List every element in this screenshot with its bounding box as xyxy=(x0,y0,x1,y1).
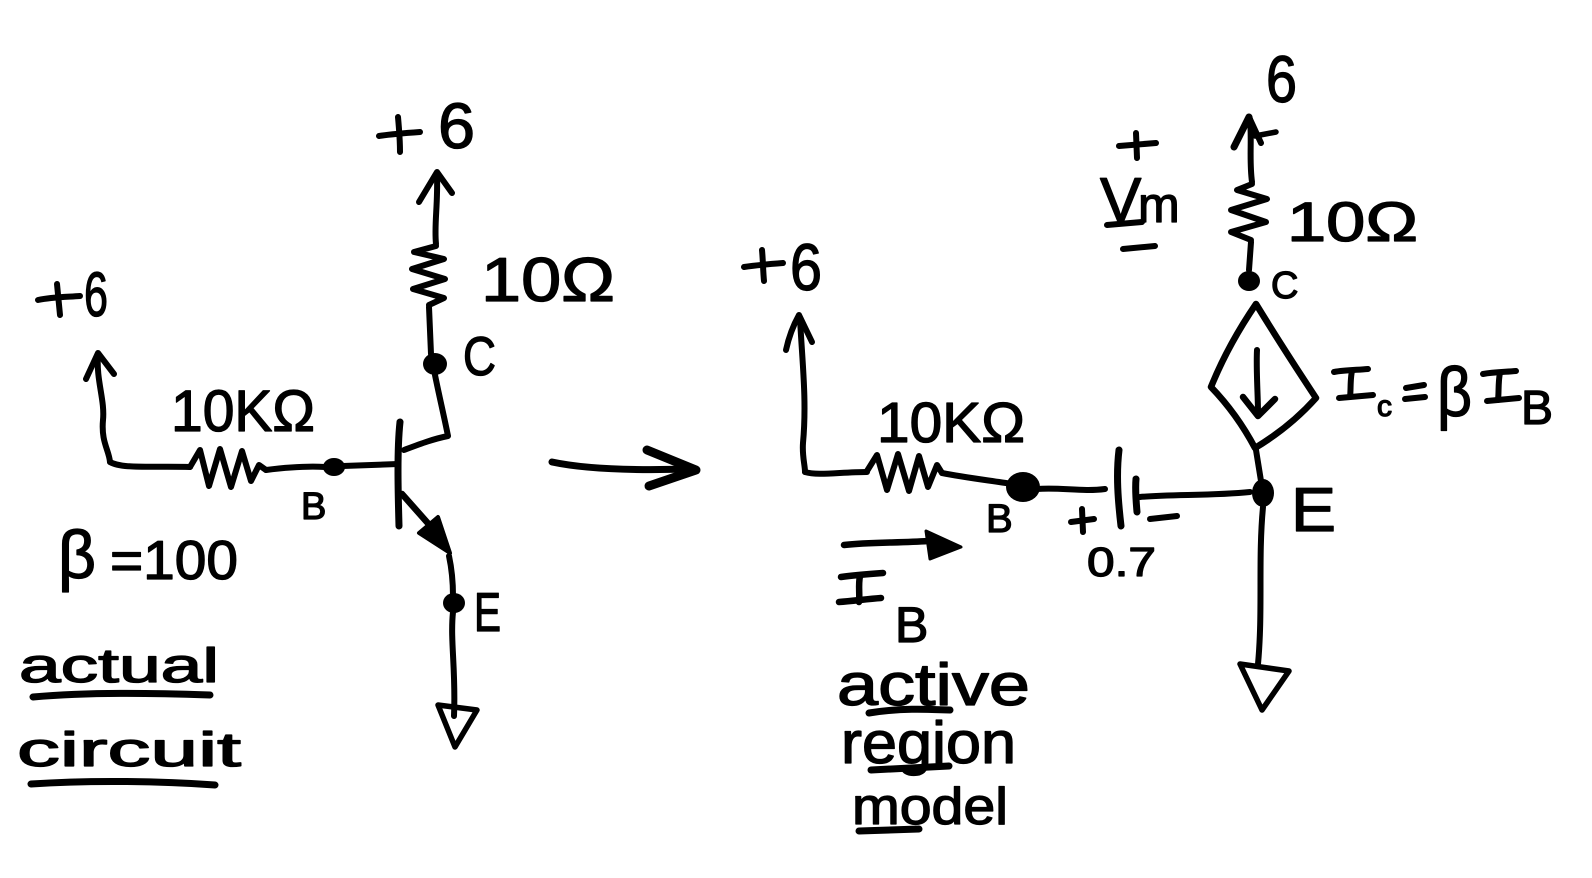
minus label (0.7V source) xyxy=(1150,516,1177,519)
svg-text:B: B xyxy=(895,597,928,653)
power arrow (left supply) xyxy=(86,353,114,462)
svg-text:E: E xyxy=(474,581,501,643)
wire xyxy=(1258,507,1263,664)
svg-text:B: B xyxy=(986,497,1013,541)
power arrow (left collector supply) xyxy=(419,172,452,244)
wire xyxy=(1037,489,1105,490)
caption "region" xyxy=(841,710,1016,776)
caption "circuit" xyxy=(17,724,241,785)
resistor RB 10K (right) xyxy=(867,454,942,491)
label Ic = βIB xyxy=(1334,353,1553,435)
svg-text:6: 6 xyxy=(790,230,822,304)
node E junction dot (right) xyxy=(1252,479,1274,507)
svg-text:=100: =100 xyxy=(110,529,238,591)
wire xyxy=(805,472,867,474)
svg-text:β: β xyxy=(1437,353,1472,431)
power +6 label (left collector supply) xyxy=(379,90,475,162)
wire xyxy=(343,464,398,466)
wire xyxy=(1249,242,1251,270)
wire xyxy=(449,556,453,596)
resistor RC 10Ω (right, vertical) xyxy=(1231,184,1267,240)
wire xyxy=(1256,450,1261,481)
transistor Q1 (NPN) xyxy=(398,375,450,553)
power arrow (right supply) xyxy=(786,315,812,472)
svg-text:c: c xyxy=(1377,390,1392,423)
svg-text:C: C xyxy=(1271,265,1298,307)
voltage source 0.7V (base-emitter drop) xyxy=(1118,450,1137,526)
node B junction dot (left) xyxy=(323,458,345,476)
power arrow (right collector supply) xyxy=(1234,117,1276,182)
svg-text:6: 6 xyxy=(438,90,475,162)
wire xyxy=(266,467,325,470)
svg-text:10KΩ: 10KΩ xyxy=(877,391,1025,455)
caption "model" xyxy=(852,778,1008,836)
svg-text:E: E xyxy=(1291,476,1336,545)
plus label (0.7V source) xyxy=(1071,509,1094,532)
wire xyxy=(1140,492,1250,497)
wire xyxy=(429,307,431,354)
base current arrow IB xyxy=(844,531,961,559)
node C junction dot (left) xyxy=(423,353,447,375)
svg-text:actual: actual xyxy=(19,640,219,693)
node B junction dot (right) xyxy=(1006,472,1040,502)
svg-text:β: β xyxy=(58,517,96,593)
wire xyxy=(942,473,1012,484)
annotation Vm with polarity xyxy=(1100,133,1180,249)
label IB xyxy=(839,573,928,653)
wire xyxy=(110,462,190,467)
svg-text:10KΩ: 10KΩ xyxy=(171,379,315,444)
transform arrow (actual to model) xyxy=(552,450,696,486)
svg-text:B: B xyxy=(301,486,326,528)
node C junction dot (right) xyxy=(1238,271,1260,291)
svg-text:circuit: circuit xyxy=(17,724,241,777)
svg-text:C: C xyxy=(463,325,496,387)
svg-text:10Ω: 10Ω xyxy=(1287,190,1418,253)
current arrow inside source xyxy=(1243,350,1275,416)
resistor RC 10Ω (left, vertical) xyxy=(412,246,445,305)
svg-text:6: 6 xyxy=(1266,42,1297,116)
wire xyxy=(452,612,454,716)
svg-text:6: 6 xyxy=(84,260,108,330)
svg-text:B: B xyxy=(1521,382,1553,435)
svg-text:m: m xyxy=(1138,177,1180,233)
node E junction dot (left) xyxy=(443,593,465,613)
ground (right) xyxy=(1240,664,1289,710)
caption "active" xyxy=(837,652,1030,718)
beta annotation β=100 xyxy=(58,517,238,593)
caption "actual" xyxy=(19,640,219,697)
power +6 label (left supply) xyxy=(38,260,108,330)
svg-text:0.7: 0.7 xyxy=(1087,539,1156,585)
ground (left) xyxy=(438,705,477,747)
resistor RB 10K (left) xyxy=(190,449,266,487)
svg-text:10Ω: 10Ω xyxy=(481,246,615,315)
dependent current source Ic (diamond) xyxy=(1211,304,1316,448)
power +6 label (right supply) xyxy=(744,230,822,304)
